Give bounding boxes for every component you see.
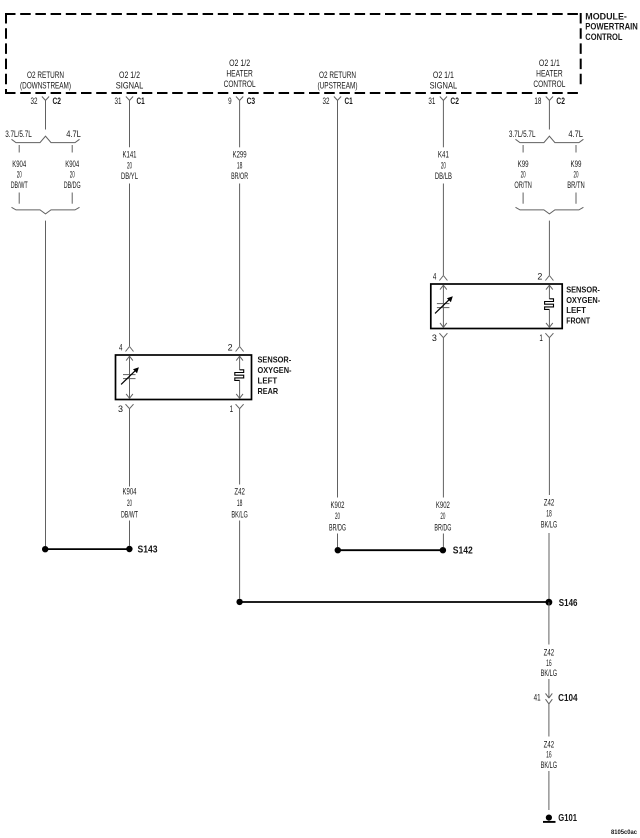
- svg-text:K41: K41: [438, 149, 449, 159]
- svg-text:2: 2: [228, 342, 233, 352]
- svg-text:SENSOR-: SENSOR-: [566, 285, 600, 294]
- svg-text:2: 2: [537, 271, 542, 281]
- svg-text:18: 18: [237, 498, 243, 508]
- svg-text:20: 20: [17, 170, 22, 180]
- svg-text:K902: K902: [331, 500, 345, 510]
- svg-text:MODULE-: MODULE-: [585, 11, 627, 21]
- svg-text:18: 18: [546, 508, 552, 518]
- svg-text:DB/WT: DB/WT: [121, 509, 138, 519]
- svg-text:LEFT: LEFT: [566, 306, 586, 315]
- svg-text:BK/LG: BK/LG: [541, 668, 558, 678]
- svg-text:32: 32: [323, 96, 330, 106]
- svg-text:S146: S146: [559, 598, 578, 609]
- svg-text:BR/DG: BR/DG: [434, 523, 451, 533]
- svg-text:41: 41: [534, 692, 541, 702]
- svg-text:20: 20: [70, 170, 75, 180]
- svg-text:K141: K141: [123, 149, 137, 159]
- svg-text:SENSOR-: SENSOR-: [258, 356, 292, 365]
- svg-text:C2: C2: [450, 96, 459, 106]
- svg-text:SIGNAL: SIGNAL: [116, 80, 144, 90]
- svg-text:32: 32: [31, 96, 38, 106]
- svg-text:20: 20: [441, 160, 446, 170]
- svg-text:3.7L/5.7L: 3.7L/5.7L: [5, 129, 32, 139]
- svg-text:CONTROL: CONTROL: [224, 79, 256, 89]
- svg-text:OXYGEN-: OXYGEN-: [258, 366, 292, 375]
- svg-text:SIGNAL: SIGNAL: [430, 80, 458, 90]
- svg-text:BK/LG: BK/LG: [541, 760, 558, 770]
- svg-text:Z42: Z42: [544, 739, 555, 749]
- svg-text:31: 31: [428, 96, 435, 106]
- svg-text:1: 1: [230, 404, 234, 414]
- svg-text:31: 31: [115, 96, 122, 106]
- svg-text:DB/DG: DB/DG: [64, 180, 81, 190]
- svg-text:O2 1/1: O2 1/1: [539, 58, 560, 68]
- svg-text:DB/WT: DB/WT: [11, 180, 28, 190]
- svg-text:1: 1: [539, 333, 543, 343]
- svg-text:BR/DG: BR/DG: [329, 523, 346, 533]
- svg-text:Z42: Z42: [544, 497, 555, 507]
- svg-text:20: 20: [335, 511, 340, 521]
- svg-text:16: 16: [546, 658, 552, 668]
- svg-text:K904: K904: [12, 159, 26, 169]
- svg-text:HEATER: HEATER: [226, 69, 253, 79]
- svg-text:HEATER: HEATER: [536, 69, 563, 79]
- svg-text:BK/LG: BK/LG: [541, 519, 558, 529]
- svg-text:Z42: Z42: [234, 487, 245, 497]
- svg-text:REAR: REAR: [258, 387, 279, 396]
- svg-text:(DOWNSTREAM): (DOWNSTREAM): [20, 80, 71, 90]
- svg-text:LEFT: LEFT: [258, 376, 278, 385]
- svg-text:3: 3: [118, 404, 123, 414]
- svg-text:BK/LG: BK/LG: [231, 509, 248, 519]
- svg-text:4.7L: 4.7L: [66, 129, 81, 139]
- svg-text:BR/OR: BR/OR: [231, 171, 248, 181]
- svg-text:20: 20: [521, 170, 526, 180]
- svg-text:DB/YL: DB/YL: [121, 171, 138, 181]
- svg-text:BR/TN: BR/TN: [567, 180, 585, 190]
- svg-text:C1: C1: [137, 96, 145, 106]
- svg-text:4: 4: [433, 271, 437, 281]
- svg-text:O2 1/2: O2 1/2: [229, 58, 250, 68]
- svg-text:C104: C104: [558, 693, 578, 704]
- svg-text:9: 9: [228, 96, 232, 106]
- svg-text:C2: C2: [53, 96, 62, 106]
- svg-text:POWERTRAIN: POWERTRAIN: [585, 22, 638, 32]
- svg-text:OR/TN: OR/TN: [514, 180, 532, 190]
- svg-text:(UPSTREAM): (UPSTREAM): [318, 80, 358, 90]
- svg-text:K99: K99: [571, 159, 582, 169]
- svg-text:O2 RETURN: O2 RETURN: [27, 70, 64, 80]
- svg-text:K902: K902: [436, 500, 450, 510]
- svg-text:Z42: Z42: [544, 647, 555, 657]
- svg-text:4.7L: 4.7L: [568, 129, 583, 139]
- svg-text:FRONT: FRONT: [566, 316, 590, 325]
- svg-text:S142: S142: [453, 546, 473, 557]
- svg-text:O2 RETURN: O2 RETURN: [319, 70, 356, 80]
- svg-text:G101: G101: [558, 813, 577, 824]
- svg-text:20: 20: [440, 511, 445, 521]
- svg-text:16: 16: [546, 750, 552, 760]
- svg-text:C3: C3: [247, 96, 256, 106]
- svg-text:K904: K904: [65, 159, 79, 169]
- svg-text:18: 18: [237, 160, 243, 170]
- svg-text:K99: K99: [518, 159, 529, 169]
- svg-text:K299: K299: [233, 149, 247, 159]
- svg-text:C2: C2: [556, 96, 565, 106]
- svg-text:CONTROL: CONTROL: [585, 32, 623, 42]
- svg-text:O2 1/1: O2 1/1: [433, 70, 454, 80]
- svg-text:20: 20: [127, 160, 132, 170]
- svg-text:18: 18: [534, 96, 541, 106]
- svg-text:20: 20: [574, 170, 579, 180]
- svg-text:4: 4: [119, 342, 123, 352]
- svg-text:S143: S143: [138, 545, 158, 556]
- svg-text:O2 1/2: O2 1/2: [119, 70, 140, 80]
- svg-text:K904: K904: [123, 487, 137, 497]
- svg-text:3.7L/5.7L: 3.7L/5.7L: [509, 129, 536, 139]
- svg-text:DB/LB: DB/LB: [435, 171, 452, 181]
- svg-text:20: 20: [127, 498, 132, 508]
- svg-text:3: 3: [432, 333, 437, 343]
- svg-text:C1: C1: [345, 96, 353, 106]
- svg-text:CONTROL: CONTROL: [533, 79, 565, 89]
- svg-text:OXYGEN-: OXYGEN-: [566, 296, 600, 305]
- svg-text:8105c0ac: 8105c0ac: [611, 829, 637, 836]
